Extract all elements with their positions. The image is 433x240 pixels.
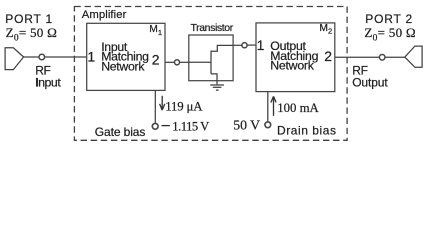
label PORT 1 xyxy=(5,12,53,26)
gate current arrow (down) xyxy=(160,96,165,110)
svg-text:Drain bias: Drain bias xyxy=(277,124,337,138)
wire gate node to transistor box xyxy=(180,61,189,63)
label Input Matching Network xyxy=(101,40,149,73)
svg-text:M2: M2 xyxy=(319,23,332,36)
amplifier dashed boundary box xyxy=(74,7,347,141)
label Z0 = 50 ohm (port 2) xyxy=(364,25,416,44)
transistor Q1 gate bar xyxy=(210,51,212,74)
svg-text:Network: Network xyxy=(270,59,314,73)
svg-text:1.115 V: 1.115 V xyxy=(172,119,209,133)
label PORT 2 xyxy=(365,12,413,26)
label RF Output xyxy=(352,64,388,90)
label 1.115 V xyxy=(172,119,209,133)
wire M1 pin 2 to gate node xyxy=(165,61,174,63)
svg-text:Output: Output xyxy=(352,76,388,90)
pin number 2 of M1 xyxy=(152,52,160,68)
svg-text:Network: Network xyxy=(101,59,145,73)
transistor Q1 drain lead xyxy=(211,45,233,51)
label Z0 = 50 ohm (port 1) xyxy=(6,25,58,44)
drain current arrow (up) xyxy=(271,96,276,115)
block M1: Input Matching Network box xyxy=(87,23,165,90)
wire output node to port2 apex xyxy=(385,56,405,58)
wire gate bias from M1 bottom xyxy=(154,90,156,123)
wire drain bias from M2 bottom xyxy=(267,92,269,122)
transistor box xyxy=(189,35,233,81)
ground symbol xyxy=(210,85,224,90)
label 119 uA xyxy=(165,100,203,114)
svg-text:Gate bias: Gate bias xyxy=(95,125,146,139)
svg-text:Z0= 50 Ω: Z0= 50 Ω xyxy=(6,25,58,44)
transistor Q1 FET symbol: gate lead xyxy=(189,61,211,63)
label M2 (top right of block) xyxy=(319,23,332,36)
svg-text:2: 2 xyxy=(152,52,160,68)
wire input node to M1 pin 1 xyxy=(45,56,87,58)
svg-text:Z0= 50 Ω: Z0= 50 Ω xyxy=(364,25,416,44)
svg-text:119 μA: 119 μA xyxy=(165,100,203,114)
pin number 1 of M2 xyxy=(257,37,265,53)
svg-text:PORT 1: PORT 1 xyxy=(5,12,53,26)
svg-text:1: 1 xyxy=(257,37,265,53)
label RF Input xyxy=(35,64,61,90)
svg-text:1: 1 xyxy=(87,49,95,65)
label Transistor xyxy=(191,22,234,34)
svg-text:100 mA: 100 mA xyxy=(277,101,319,115)
label Gate bias xyxy=(95,125,146,139)
svg-text:Amplifier: Amplifier xyxy=(82,9,127,21)
wire port1 apex to input node xyxy=(24,56,39,58)
node: drain reference plane circle xyxy=(242,43,247,48)
label 50 V xyxy=(233,117,260,132)
node: output reference plane circle xyxy=(379,55,385,61)
wire drain node to M2 pin 1 xyxy=(247,44,256,46)
svg-text:Input: Input xyxy=(35,76,61,90)
label M1 (top right of block) xyxy=(149,24,162,37)
svg-text:M1: M1 xyxy=(149,24,162,37)
pin number 1 of M1 xyxy=(87,49,95,65)
svg-text:PORT 2: PORT 2 xyxy=(365,12,413,26)
wire transistor drain to drain node xyxy=(233,44,242,46)
svg-text:Transistor: Transistor xyxy=(191,22,234,34)
label Amplifier xyxy=(82,9,127,21)
node: gate bias terminal circle xyxy=(152,123,158,129)
svg-text:2: 2 xyxy=(324,48,332,64)
pin number 2 of M2 xyxy=(324,48,332,64)
transistor Q1 source lead xyxy=(211,74,217,85)
node: drain bias terminal circle xyxy=(265,122,271,128)
svg-text:50 V: 50 V xyxy=(233,117,260,132)
label Output Matching Network xyxy=(270,39,318,72)
port P1 symbol xyxy=(5,48,24,70)
node: input reference plane circle xyxy=(39,54,45,60)
node: gate reference plane circle xyxy=(174,60,179,65)
label 100 mA xyxy=(277,101,319,115)
wire M2 pin 2 to output node xyxy=(335,56,380,58)
minus sign of bias voltage xyxy=(162,125,170,127)
block M2: Output Matching Network box xyxy=(256,23,335,92)
port P2 symbol xyxy=(405,46,422,67)
label Drain bias xyxy=(277,124,337,138)
